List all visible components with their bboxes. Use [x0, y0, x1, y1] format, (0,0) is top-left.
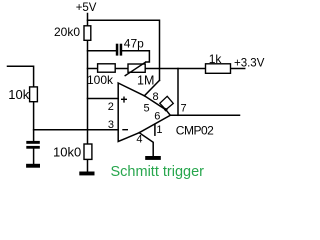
svg-text:+3.3V: +3.3V	[234, 58, 265, 70]
svg-text:20k0: 20k0	[54, 25, 80, 39]
svg-text:10k: 10k	[8, 87, 29, 102]
svg-text:3: 3	[108, 119, 114, 131]
svg-text:6: 6	[154, 111, 160, 123]
svg-text:47p: 47p	[124, 37, 144, 51]
svg-text:7: 7	[181, 103, 187, 115]
svg-text:100k: 100k	[87, 73, 114, 87]
svg-text:1k: 1k	[209, 52, 223, 66]
svg-text:+5V: +5V	[76, 2, 97, 14]
svg-text:10k0: 10k0	[53, 145, 81, 160]
svg-text:2: 2	[108, 101, 114, 113]
svg-text:Schmitt trigger: Schmitt trigger	[111, 164, 205, 180]
svg-text:5: 5	[144, 103, 150, 115]
svg-text:1M: 1M	[137, 73, 154, 87]
svg-text:8: 8	[153, 91, 159, 103]
svg-text:1: 1	[156, 124, 162, 136]
svg-text:4: 4	[136, 133, 142, 145]
svg-text:CMP02: CMP02	[176, 124, 214, 138]
